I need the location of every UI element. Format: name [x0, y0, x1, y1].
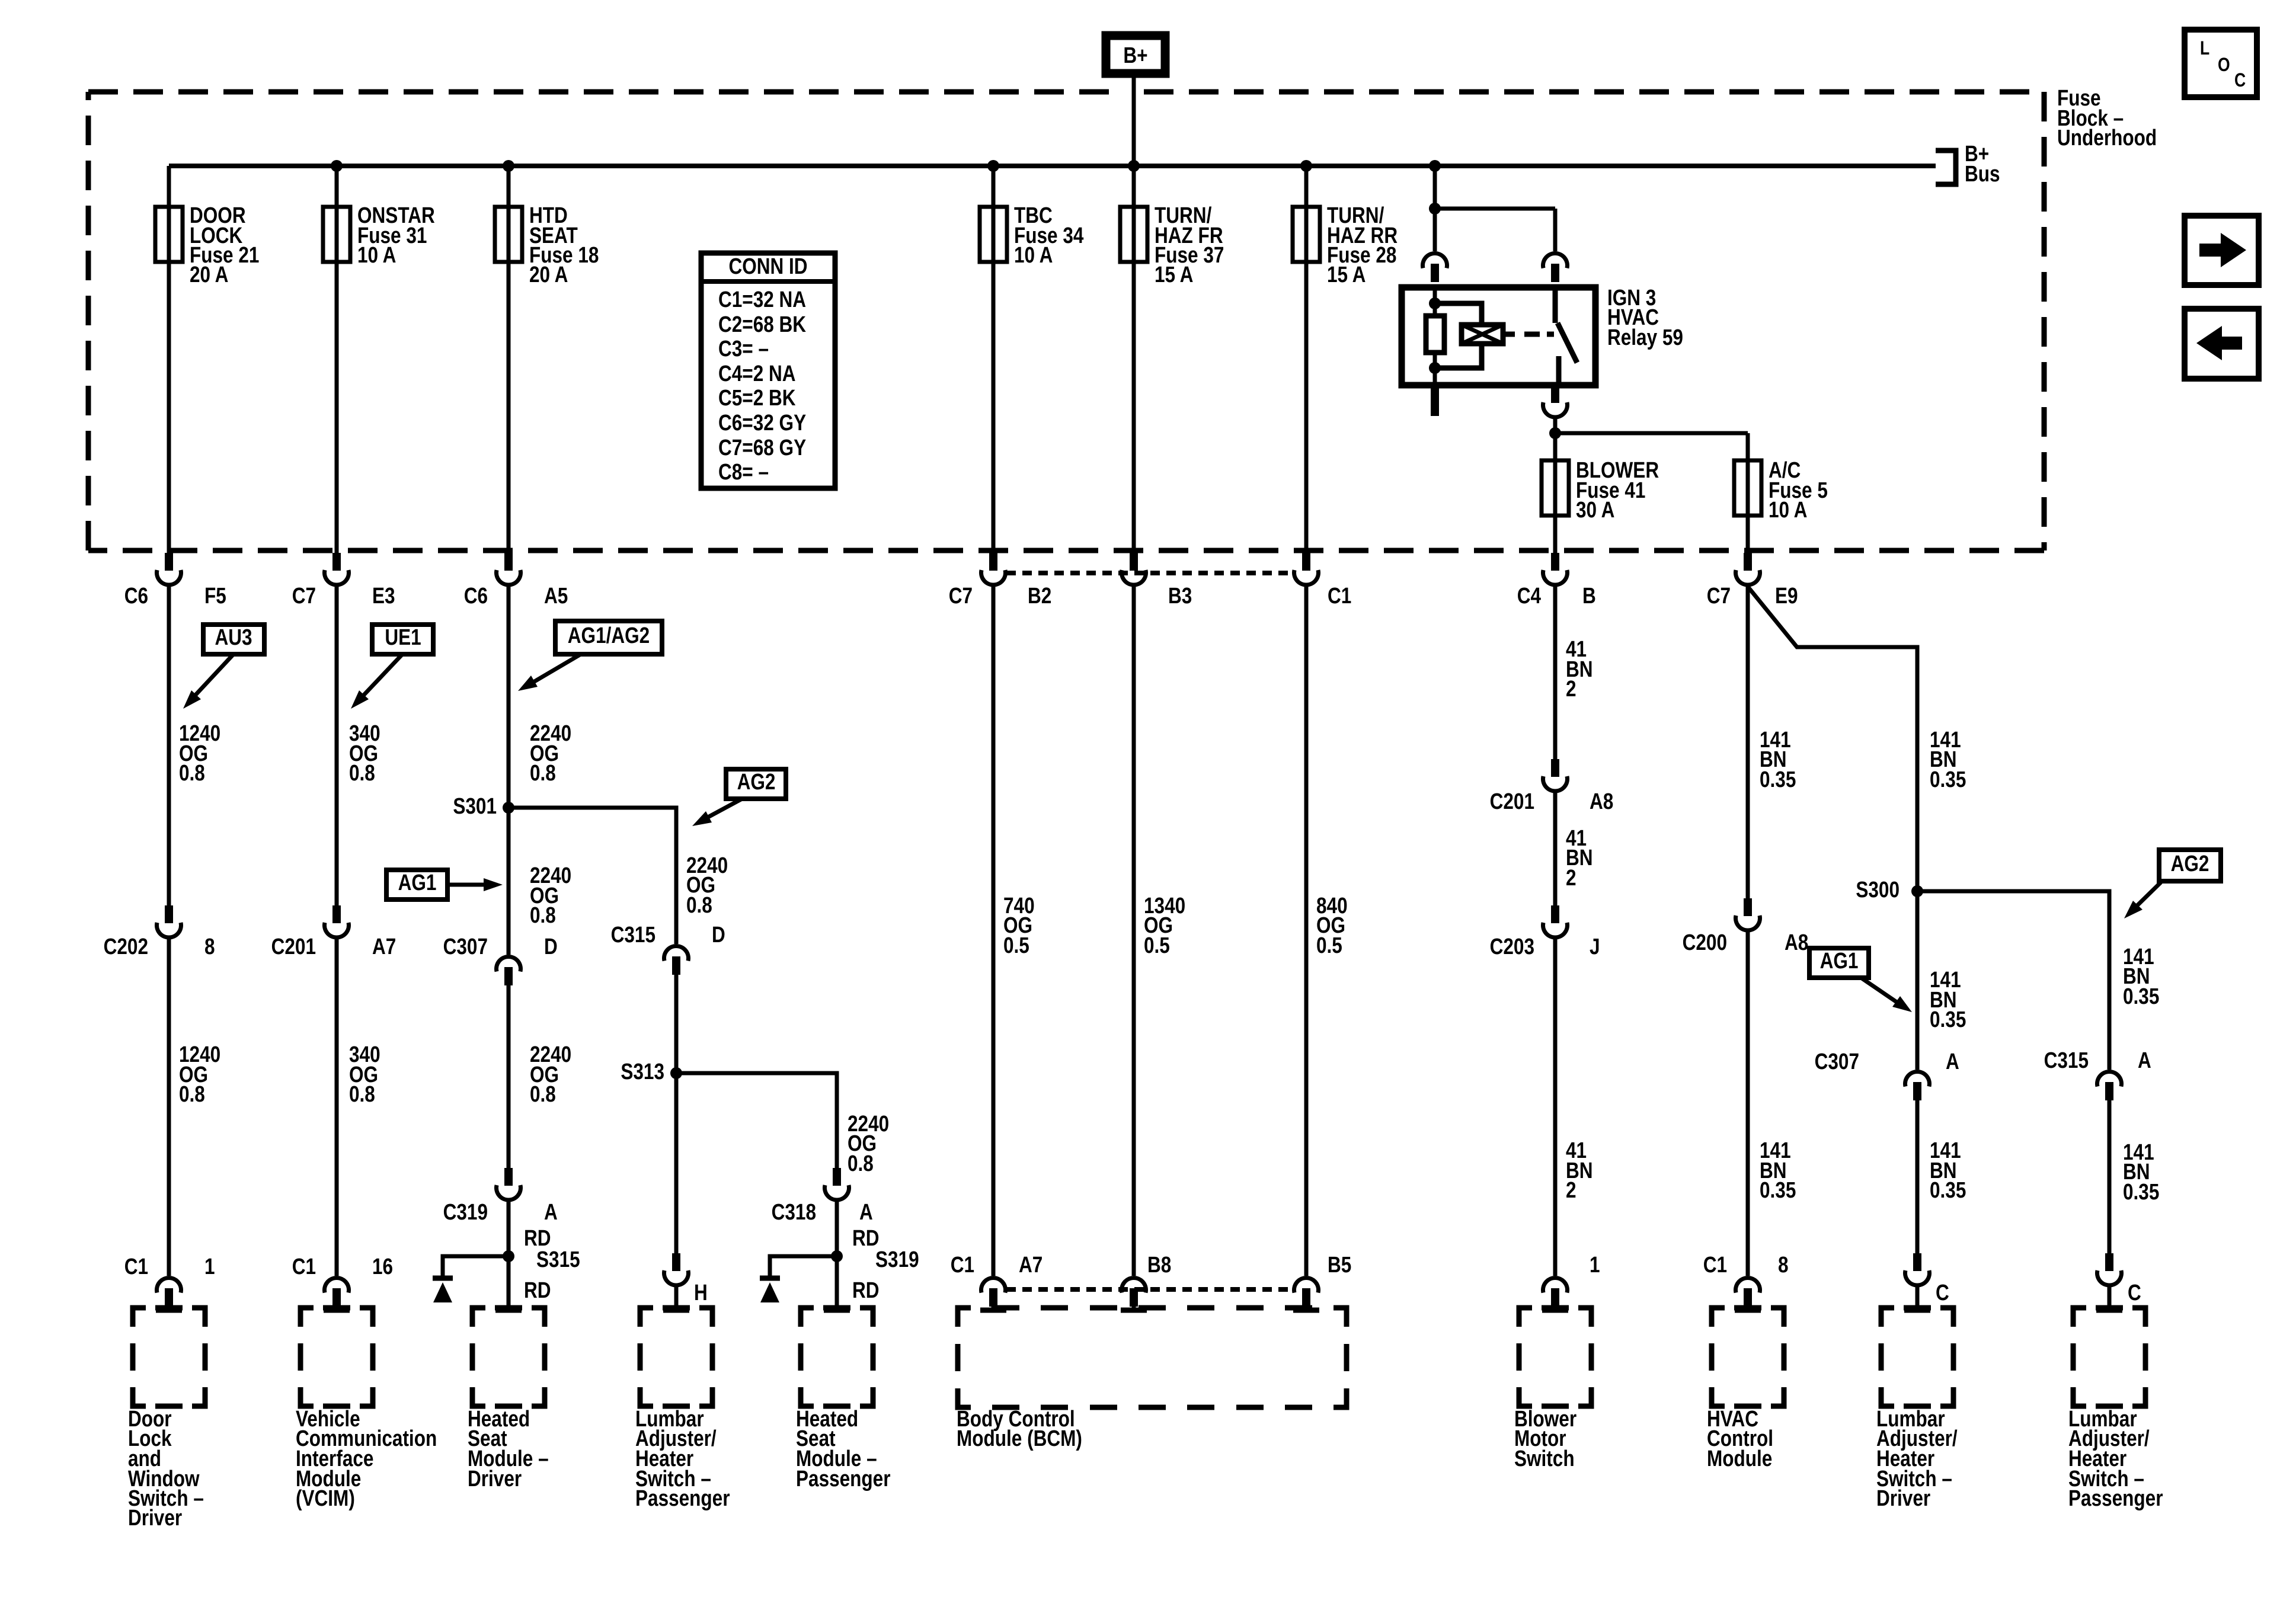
harness code box AG2 right	[2159, 850, 2221, 881]
svg-text:1: 1	[1590, 1252, 1600, 1277]
svg-text:C1: C1	[124, 1254, 148, 1279]
svg-text:C319: C319	[443, 1199, 488, 1224]
connector ID table	[701, 253, 835, 488]
svg-text:0.8: 0.8	[530, 902, 556, 927]
fuse 41 BLOWER 30A	[1542, 457, 1659, 553]
svg-text:2: 2	[1566, 676, 1576, 701]
wire 740 OG	[993, 587, 1035, 1276]
svg-text:0.8: 0.8	[349, 760, 375, 785]
svg-text:C8= –: C8= –	[718, 459, 769, 484]
svg-text:15 A: 15 A	[1155, 262, 1193, 287]
svg-text:L: L	[2200, 38, 2209, 59]
arrow AG1/AG2 to wire	[518, 654, 581, 691]
connector B8 BCM	[1121, 1252, 1171, 1310]
svg-text:C315: C315	[611, 922, 655, 947]
svg-text:C6=32 GY: C6=32 GY	[718, 410, 806, 435]
wire relay output junction	[1549, 419, 1748, 460]
wire 141 BN to S300	[1930, 727, 1966, 792]
svg-text:0.8: 0.8	[530, 760, 556, 785]
wire 41 BN seg1	[1555, 587, 1593, 759]
svg-text:D: D	[712, 922, 725, 947]
svg-text:AG1/AG2: AG1/AG2	[568, 623, 650, 648]
svg-text:J: J	[1590, 934, 1600, 959]
wire RD upper passenger	[837, 1202, 880, 1256]
connector C1-16 VCIM	[292, 1254, 393, 1310]
wire 1340 OG	[1134, 587, 1185, 1276]
svg-text:0.5: 0.5	[1316, 933, 1342, 958]
connector C201-A7 inline	[271, 905, 396, 959]
relay coil ground pin	[1431, 385, 1439, 416]
svg-text:F5: F5	[204, 583, 226, 608]
svg-text:C201: C201	[271, 934, 316, 959]
wire 840 OG	[1306, 587, 1348, 1276]
svg-text:20 A: 20 A	[190, 262, 228, 287]
svg-text:Passenger: Passenger	[796, 1466, 891, 1491]
svg-text:0.8: 0.8	[530, 1081, 556, 1106]
svg-text:B: B	[1582, 583, 1596, 608]
svg-text:Switch: Switch	[1514, 1446, 1575, 1471]
relay switch output connector	[1543, 385, 1568, 417]
svg-text:B5: B5	[1328, 1252, 1351, 1277]
svg-text:C1=32 NA: C1=32 NA	[718, 287, 806, 312]
arrow AU3 to wire	[183, 654, 234, 709]
wire 41 BN seg2	[1555, 793, 1593, 905]
svg-text:AU3: AU3	[215, 625, 252, 649]
svg-text:C307: C307	[1815, 1049, 1859, 1074]
svg-text:O: O	[2218, 55, 2230, 76]
svg-text:C7: C7	[1707, 583, 1731, 608]
svg-text:C3= –: C3= –	[718, 336, 769, 361]
svg-text:16: 16	[372, 1254, 393, 1279]
svg-text:Module (BCM): Module (BCM)	[957, 1426, 1082, 1451]
svg-text:B+: B+	[1123, 43, 1147, 68]
splice S301	[453, 793, 514, 818]
svg-text:A: A	[1946, 1049, 1959, 1074]
module Lumbar Adjuster Heater Switch Driver	[1876, 1308, 1958, 1511]
wire 2240 OG seg1	[509, 587, 571, 808]
arrow AG2 right to wire	[2124, 882, 2161, 918]
svg-text:C7: C7	[949, 583, 973, 608]
bcm connector dashed line bottom	[1006, 1287, 1293, 1292]
wire 141 BN hvac lower	[1748, 932, 1796, 1276]
svg-text:A8: A8	[1590, 789, 1613, 814]
wire RD upper heated seat	[509, 1202, 551, 1256]
connector C315-D inline	[611, 922, 725, 975]
svg-text:A7: A7	[1019, 1252, 1043, 1277]
wire branch S313 to C318	[676, 1073, 837, 1168]
svg-text:10 A: 10 A	[357, 242, 396, 267]
svg-text:0.8: 0.8	[848, 1151, 874, 1176]
svg-text:AG2: AG2	[737, 769, 776, 794]
svg-text:C1: C1	[951, 1252, 974, 1277]
arrow AG2 to wire	[692, 799, 742, 826]
wire 2240 OG seg3	[509, 985, 571, 1168]
svg-text:C7: C7	[292, 583, 316, 608]
fuse block underhood dashed border	[88, 92, 2044, 550]
svg-text:0.35: 0.35	[2123, 984, 2159, 1009]
svg-text:0.35: 0.35	[1930, 1007, 1966, 1032]
svg-text:0.35: 0.35	[1930, 767, 1966, 792]
svg-text:0.8: 0.8	[686, 892, 712, 917]
wire E9 diagonal branch	[1748, 587, 1917, 891]
wire 141 BN AG2 lower	[2109, 1100, 2159, 1253]
wire RD lower heated seat	[495, 1256, 551, 1310]
wire 1240 OG lower	[169, 939, 220, 1276]
connector C6-A5 fuse block output	[464, 553, 568, 609]
wire branch S300 to AG2	[1917, 891, 2109, 1070]
connector B3 fuse block output	[1122, 553, 1192, 609]
arrow AG1 to wire	[449, 878, 503, 891]
wire B+ to bus	[1132, 78, 1136, 166]
connector B5 BCM	[1293, 1252, 1351, 1310]
wire 340 OG lower	[337, 939, 380, 1276]
svg-text:Driver: Driver	[1876, 1486, 1931, 1510]
module Lumbar Adjuster Heater Switch Passenger	[2068, 1308, 2163, 1511]
svg-text:0.8: 0.8	[349, 1081, 375, 1106]
svg-text:AG1: AG1	[1820, 948, 1859, 973]
fuse 31 ONSTAR 10A	[323, 160, 435, 553]
svg-text:Bus: Bus	[1965, 161, 2000, 186]
svg-text:A: A	[544, 1199, 558, 1224]
diode at S319	[760, 1278, 780, 1302]
connector pin H lumbar passenger	[663, 1253, 708, 1310]
harness code box AG1 right	[1809, 948, 1869, 978]
svg-text:S315: S315	[536, 1247, 580, 1272]
harness code box AG2 mid	[726, 769, 786, 799]
svg-text:C6: C6	[464, 583, 488, 608]
arrow AG1 right to wire	[1861, 978, 1912, 1012]
connector C1-8 HVAC control	[1703, 1252, 1789, 1310]
svg-text:C4=2 NA: C4=2 NA	[718, 361, 796, 386]
svg-text:0.8: 0.8	[179, 1081, 205, 1106]
arrow box left	[2185, 309, 2259, 379]
wire C315-D to H	[674, 975, 679, 1253]
svg-text:C4: C4	[1517, 583, 1542, 608]
relay IGN3 HVAC Relay 59	[1402, 285, 1683, 385]
connector C318-A inline	[772, 1168, 873, 1225]
svg-text:UE1: UE1	[385, 625, 421, 649]
svg-text:B8: B8	[1147, 1252, 1171, 1277]
svg-text:A: A	[2138, 1048, 2151, 1073]
connector C6-F5 fuse block output	[124, 553, 226, 609]
splice S319	[831, 1247, 919, 1272]
B+ Bus terminal bracket	[1936, 141, 2000, 186]
svg-text:S319: S319	[875, 1247, 919, 1272]
module Lumbar Adjuster Heater Switch Passenger mid	[635, 1308, 730, 1511]
connector pin C lumbar passenger	[2096, 1253, 2141, 1310]
svg-text:E9: E9	[1775, 583, 1798, 608]
module Body Control Module	[957, 1308, 1347, 1451]
svg-text:15 A: 15 A	[1327, 262, 1366, 287]
connector C7-E9 fuse block output	[1707, 553, 1798, 609]
svg-text:Relay 59: Relay 59	[1607, 325, 1683, 350]
svg-text:C200: C200	[1683, 930, 1727, 955]
bcm connector dashed line top	[1006, 571, 1293, 575]
splice S313	[621, 1059, 682, 1084]
wire 41 BN seg3	[1555, 939, 1593, 1276]
svg-text:H: H	[694, 1280, 708, 1305]
module Heated Seat Module Driver	[468, 1308, 549, 1491]
svg-text:A7: A7	[372, 934, 396, 959]
splice S300	[1856, 877, 1923, 902]
svg-text:0.5: 0.5	[1144, 933, 1170, 958]
svg-text:E3: E3	[372, 583, 395, 608]
connector pin 1 blower switch	[1542, 1252, 1600, 1310]
svg-text:30 A: 30 A	[1576, 497, 1614, 522]
connector C7-E3 fuse block output	[292, 553, 395, 609]
arrow box right	[2185, 216, 2259, 285]
wire 2240 OG seg2	[509, 808, 571, 955]
svg-text:A8: A8	[1785, 930, 1808, 955]
connector pin C lumbar driver	[1904, 1253, 1949, 1310]
connector C315-A inline	[2044, 1048, 2151, 1100]
svg-text:C203: C203	[1490, 934, 1534, 959]
wire 141 BN lumbar driver	[1917, 1100, 1966, 1253]
connector C307-A inline	[1815, 1049, 1959, 1100]
svg-text:RD: RD	[524, 1278, 551, 1302]
svg-text:20 A: 20 A	[529, 262, 568, 287]
fuse 5 AC 10A	[1734, 457, 1828, 553]
wire S315 to diode	[443, 1256, 509, 1276]
svg-text:AG1: AG1	[398, 870, 437, 895]
relay switch input connector	[1543, 253, 1568, 282]
svg-text:8: 8	[204, 934, 215, 959]
connector C201-A8 inline	[1490, 759, 1614, 814]
svg-text:0.5: 0.5	[1003, 933, 1029, 958]
wire 1240 OG upper	[169, 587, 220, 905]
svg-text:C2=68 BK: C2=68 BK	[718, 312, 806, 337]
svg-text:AG2: AG2	[2171, 851, 2209, 876]
connector C1-1 door lock switch	[124, 1254, 215, 1310]
LOC reference box	[2185, 30, 2257, 97]
svg-text:Driver: Driver	[468, 1466, 522, 1491]
power feed B+ box	[1106, 36, 1165, 73]
svg-text:S300: S300	[1856, 877, 1900, 902]
arrow UE1 to wire	[351, 654, 402, 709]
fuse 18 HTD SEAT 20A	[495, 160, 599, 553]
module HVAC Control Module	[1707, 1308, 1784, 1471]
svg-text:S313: S313	[621, 1059, 664, 1084]
svg-text:C315: C315	[2044, 1048, 2089, 1073]
connector C1 fuse block output	[1294, 553, 1352, 609]
svg-text:C1: C1	[1703, 1252, 1727, 1277]
module Heated Seat Module Passenger	[796, 1308, 891, 1491]
connector C1-A7 BCM	[951, 1252, 1043, 1310]
svg-text:0.35: 0.35	[1760, 767, 1796, 792]
connector C202-8 inline	[104, 905, 215, 959]
wire 2240 OG AG2 branch label	[686, 853, 728, 917]
module Vehicle Communication Interface Module	[296, 1308, 437, 1511]
relay coil input connector	[1423, 253, 1447, 282]
svg-text:C1: C1	[292, 1254, 316, 1279]
connector C203-J inline	[1490, 905, 1600, 959]
svg-text:8: 8	[1778, 1252, 1789, 1277]
label Fuse Block Underhood	[2057, 85, 2157, 150]
svg-text:1: 1	[204, 1254, 215, 1279]
wire 340 OG upper	[337, 587, 380, 905]
svg-text:10 A: 10 A	[1769, 497, 1807, 522]
svg-text:C318: C318	[772, 1199, 816, 1224]
harness code box AG1/AG2	[555, 621, 662, 654]
wire 141 BN below S300	[1917, 891, 1966, 1070]
wire 141 BN hvac	[1748, 587, 1796, 898]
connector C319-A inline	[443, 1168, 558, 1225]
harness code box AU3	[203, 625, 264, 654]
svg-text:C307: C307	[443, 934, 488, 959]
module Blower Motor Switch	[1514, 1308, 1591, 1471]
svg-text:(VCIM): (VCIM)	[296, 1486, 355, 1510]
B+ bus wire	[169, 164, 1936, 168]
svg-text:C: C	[2128, 1280, 2141, 1305]
diode at S315	[433, 1278, 453, 1302]
svg-text:Driver: Driver	[128, 1505, 183, 1530]
svg-text:Passenger: Passenger	[635, 1486, 730, 1510]
connector C307-D inline	[443, 934, 558, 985]
svg-text:B3: B3	[1168, 583, 1192, 608]
svg-text:C7=68 GY: C7=68 GY	[718, 435, 806, 460]
svg-text:A: A	[859, 1199, 873, 1224]
svg-text:Module: Module	[1707, 1446, 1772, 1471]
wire 2240 OG passenger label	[848, 1111, 889, 1176]
svg-text:C6: C6	[124, 583, 148, 608]
svg-text:C: C	[2234, 70, 2246, 91]
svg-text:0.8: 0.8	[179, 760, 205, 785]
svg-text:0.35: 0.35	[1760, 1177, 1796, 1202]
svg-text:10 A: 10 A	[1014, 242, 1053, 267]
svg-text:2: 2	[1566, 1177, 1576, 1202]
wire branch S301 to C315-D	[509, 808, 676, 944]
wire bus to relay branch	[1429, 160, 1555, 251]
svg-text:C5=2 BK: C5=2 BK	[718, 385, 796, 410]
svg-text:CONN ID: CONN ID	[728, 254, 807, 279]
connector C4-B fuse block output	[1517, 553, 1596, 609]
svg-text:0.35: 0.35	[2123, 1179, 2159, 1204]
wire RD lower passenger	[824, 1256, 880, 1310]
svg-text:C1: C1	[1328, 583, 1351, 608]
svg-text:C: C	[1936, 1280, 1949, 1305]
fuse 21 DOOR LOCK 20A	[155, 166, 259, 553]
connector C7-B2 fuse block output	[949, 553, 1052, 609]
harness code box AG1 mid	[386, 870, 447, 900]
wire S319 to diode	[770, 1256, 837, 1276]
svg-text:0.35: 0.35	[1930, 1177, 1966, 1202]
fuse 37 TURN HAZ FR 15A	[1120, 160, 1224, 553]
svg-text:RD: RD	[852, 1278, 880, 1302]
svg-text:S301: S301	[453, 793, 497, 818]
harness code box UE1	[372, 625, 433, 654]
fuse 34 TBC 10A	[980, 160, 1084, 553]
svg-text:D: D	[544, 934, 558, 959]
fuse 28 TURN HAZ RR 15A	[1293, 160, 1398, 553]
svg-text:C202: C202	[104, 934, 148, 959]
svg-text:Passenger: Passenger	[2068, 1486, 2163, 1510]
svg-text:A5: A5	[544, 583, 568, 608]
svg-text:C201: C201	[1490, 789, 1534, 814]
wire DOOR LOCK fuse drop	[167, 166, 171, 553]
svg-text:2: 2	[1566, 865, 1576, 890]
module Door Lock and Window Switch Driver	[128, 1308, 205, 1531]
wire 141 BN AG2 upper	[2123, 944, 2159, 1009]
connector C200-A8 inline	[1683, 898, 1809, 955]
svg-text:Underhood: Underhood	[2057, 125, 2157, 150]
svg-text:B2: B2	[1028, 583, 1051, 608]
splice S315	[503, 1247, 580, 1272]
